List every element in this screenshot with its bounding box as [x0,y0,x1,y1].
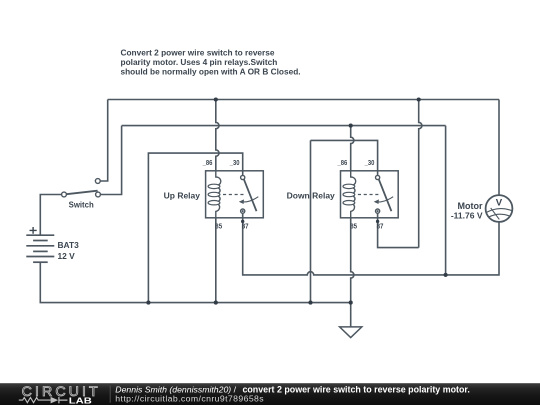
svg-text:should be normally open with A: should be normally open with A OR B Clos… [121,67,301,77]
svg-text:http://circuitlab.com/cnru9t78: http://circuitlab.com/cnru9t789658s [115,393,264,403]
wire: down relay pin 86 from rail 2 (hops pin30 link) [351,126,354,171]
wire: rail 2 (throw A / down coil / motor -) [122,125,446,127]
wire: down relay pin 87 up to top rail (hops rail 2) [378,213,419,247]
node junction at 215.8,302.6 [214,301,218,305]
ground symbol [340,327,362,338]
relay U1 Up pin 87 terminal [241,209,245,213]
switch lever [66,191,97,195]
switch throw A terminal [96,192,101,197]
wire: up relay pin30 link to ground rail [148,153,242,303]
wire: down relay pin 85 to ground (hops motor wire) [351,218,354,327]
battery + sign [30,227,37,234]
footer logo resistor zigzag + diode [19,398,51,403]
wire: ground rail (battery - ) [40,262,350,302]
wire: vertical 418.7 with hop over rail2 [419,100,422,248]
node junction at 215.8,99.5 [214,97,218,101]
wire: up relay pin 85 down to ground rail [215,218,217,303]
svg-text:_30: _30 [364,158,375,167]
relay U2 Down throw arrow [377,197,393,202]
wire: switch throw B up to top rail [98,100,108,182]
svg-text:85: 85 [215,221,222,230]
node junction at 350.7,125.6 [349,124,353,128]
wire: up relay pin 87 across to motor - [243,213,499,275]
wire: top rail (node to motor +) [108,99,499,101]
node junction at 350.7,302.6 [349,301,353,305]
node junction at 445.6,274.9 [444,273,448,277]
svg-text:12 V: 12 V [58,251,76,261]
relay U2 Down pin 87 terminal [376,209,380,213]
svg-text:_86: _86 [337,158,348,167]
wire: battery + to switch common [40,195,64,236]
wire: motor top drop [498,100,500,196]
relay U2 Down armature contact (pin 30) [379,179,392,211]
motor meter scale arcs [487,209,513,217]
node junction at 418.7,99.5 [417,97,421,101]
motor meter needle [491,208,500,220]
svg-text:polarity motor. Uses 4 pin rel: polarity motor. Uses 4 pin relays.Switch [121,57,278,67]
node junction at 148.4,302.6 [146,301,150,305]
relay U2 Down coil (pins 86-85) [351,171,356,218]
svg-text:V: V [496,198,503,209]
wire: rail2 right drop to motor - node (hopless) [445,126,447,275]
relay U1 Up throw arrow [243,197,259,202]
relay U1 Up pin 87 node dot [241,220,244,223]
motor M1 voltmeter body [486,195,513,222]
relay U2 Down dashed coupling link [358,194,380,196]
svg-text:-11.76 V: -11.76 V [451,210,483,220]
svg-text:Convert 2 power wire switch to: Convert 2 power wire switch to reverse [121,47,275,57]
relay U1 Up armature contact (pin 30) [244,179,257,211]
svg-text:Up Relay: Up Relay [164,190,201,200]
svg-text:BAT3: BAT3 [58,240,80,250]
battery BAT3 plates [26,234,54,236]
wire: down relay pin30 link to ground rail [311,140,378,302]
relay U1 Up dashed coupling link [223,194,245,196]
wire: up relay pin 86 from top rail (hops rails 2,3) [216,100,219,171]
switch throw B terminal [95,179,100,184]
svg-text:85: 85 [350,221,357,230]
relay U2 Down pin 87 node dot [376,220,379,223]
footer separator [109,386,111,403]
svg-text:_86: _86 [202,158,213,167]
footer bar [0,383,540,405]
svg-text:LAB: LAB [69,396,92,405]
wire: switch throw A to rail 2 [98,126,122,195]
svg-text:_30: _30 [229,158,240,167]
svg-text:Down Relay: Down Relay [287,190,335,200]
switch common terminal [62,192,67,197]
relay U1 Up box [206,171,264,218]
svg-text:Switch: Switch [69,201,94,210]
relay U2 Down box [341,171,399,218]
node junction at 310.5,302.6 [308,301,312,305]
relay U1 Up coil (pins 86-85) [216,171,221,218]
